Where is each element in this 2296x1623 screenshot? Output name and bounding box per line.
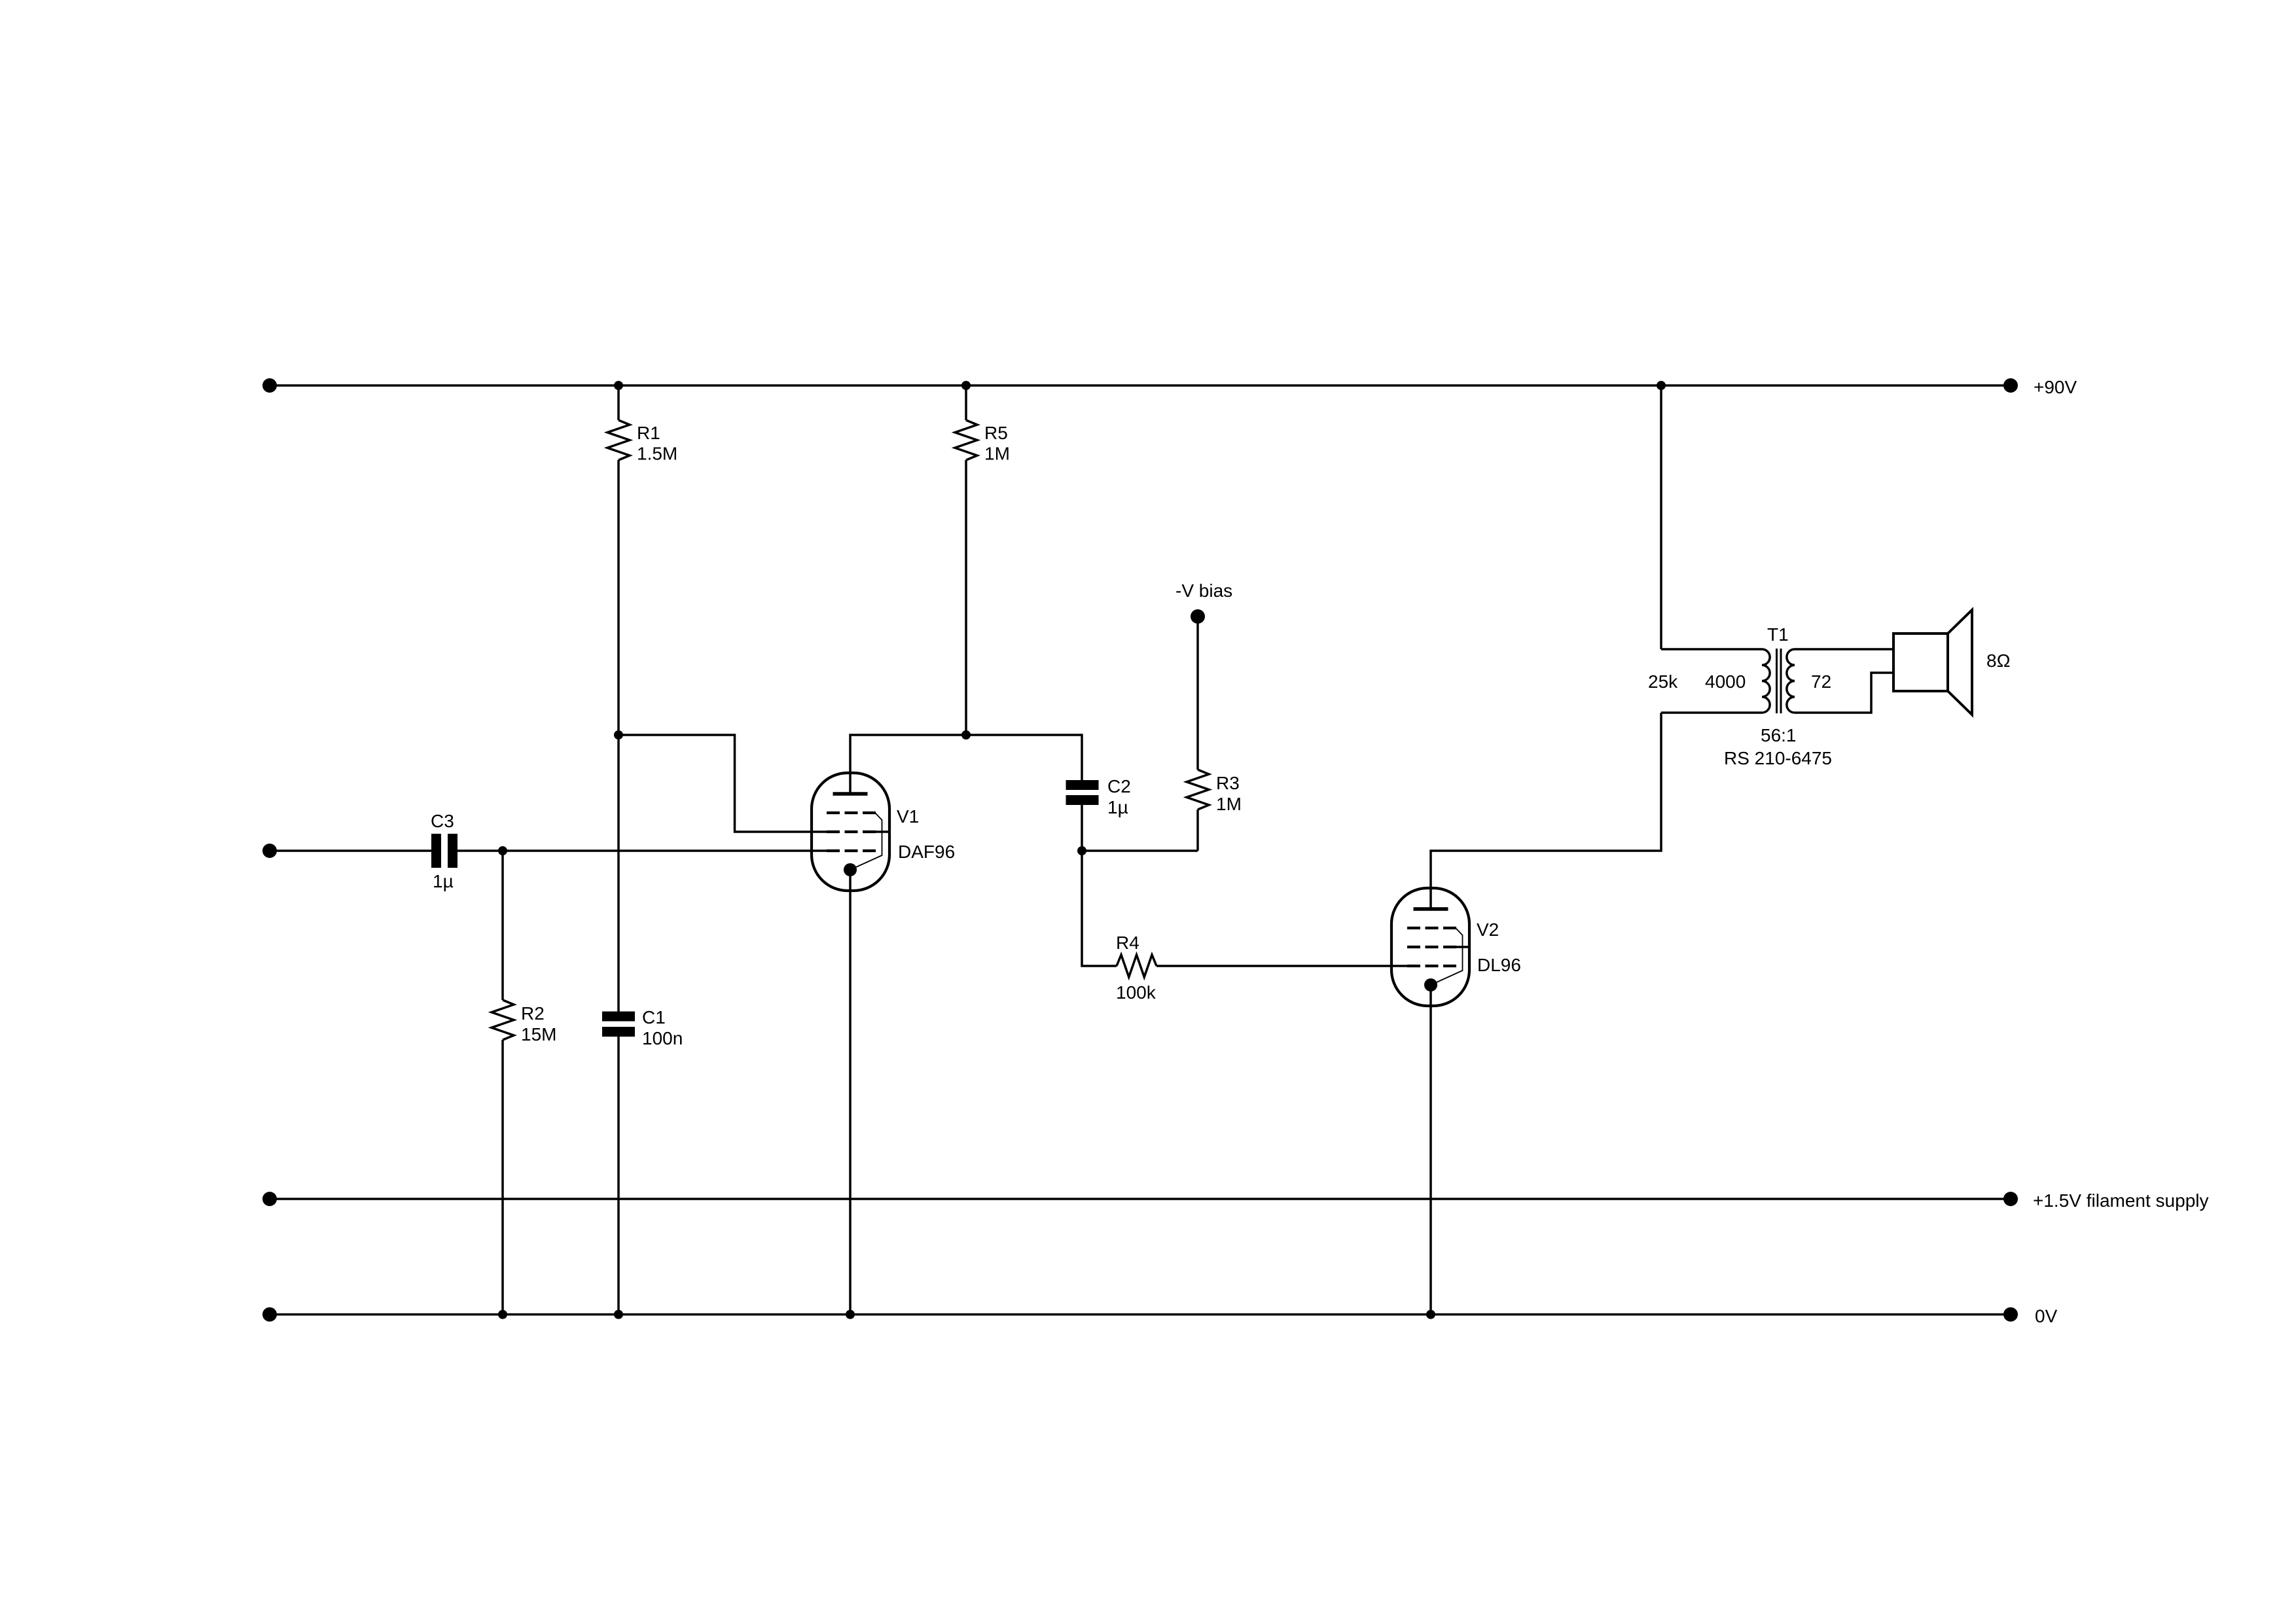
svg-text:R4: R4	[1116, 933, 1139, 953]
wire R1 top lead	[617, 385, 620, 420]
svg-text:100n: 100n	[642, 1028, 683, 1048]
node junction +90V/T1	[1657, 381, 1666, 390]
svg-text:100k: 100k	[1116, 982, 1157, 1003]
node junction R1/grid wire	[614, 730, 623, 740]
wire +90V rail	[270, 384, 2011, 387]
node junction R2/0V	[498, 1310, 507, 1319]
node 0V right terminal	[2003, 1308, 2018, 1322]
svg-text:R5: R5	[984, 423, 1008, 443]
wire V1 anode to C2	[850, 735, 1082, 794]
capacitor C2	[1066, 780, 1099, 790]
wire V2 filament to 0V	[1429, 985, 1432, 1315]
tube V2 grid row g3	[1407, 927, 1456, 929]
svg-text:1M: 1M	[1216, 794, 1242, 814]
tube V2 grid row g2	[1407, 946, 1456, 948]
tube V1 grid row g2	[827, 830, 876, 833]
wire R1 to C1	[617, 460, 620, 1012]
svg-text:+90V: +90V	[2034, 377, 2077, 397]
svg-text:1M: 1M	[984, 444, 1010, 464]
wire R1 junction to V1 grid g2	[619, 735, 827, 832]
resistor R4	[1117, 955, 1157, 977]
svg-text:V2: V2	[1477, 919, 1499, 940]
transformer T1 primary winding	[1661, 649, 1770, 713]
svg-text:0V: 0V	[2035, 1306, 2058, 1327]
svg-text:R1: R1	[637, 423, 660, 443]
node +1.5V left terminal	[262, 1192, 277, 1206]
tube V1 grid row g3	[827, 811, 876, 814]
tube V1 envelope	[812, 773, 889, 891]
svg-text:C3: C3	[431, 811, 454, 831]
svg-text:RS 210-6475: RS 210-6475	[1724, 748, 1832, 768]
wire R5 bottom lead	[965, 460, 967, 735]
svg-text:DAF96: DAF96	[898, 842, 955, 862]
wire junction to R3	[1082, 849, 1198, 852]
svg-text:T1: T1	[1767, 624, 1789, 645]
tube V2 anode	[1414, 907, 1448, 911]
svg-text:72: 72	[1811, 671, 1831, 692]
node junction C3/R2	[498, 846, 507, 855]
wire C1 bottom lead	[617, 1032, 620, 1315]
tube V2 internal lead	[1431, 928, 1463, 985]
node junction +90V/R1	[614, 381, 623, 390]
wire 0V rail	[270, 1313, 2011, 1316]
resistor R2	[492, 1000, 514, 1040]
wire +90V to T1 primary top	[1660, 385, 1662, 649]
node junction C2/R3/R4	[1077, 846, 1086, 855]
wire C2 bottom lead	[1081, 805, 1083, 851]
tube V1 filament	[844, 863, 857, 876]
node input terminal	[262, 844, 277, 858]
tube V2 grid row g1	[1407, 965, 1456, 967]
wire R2 bottom lead	[501, 1040, 504, 1315]
capacitor C1	[602, 1012, 635, 1022]
node junction V1 filament/0V	[846, 1310, 855, 1319]
wire R5 top lead	[965, 385, 967, 420]
wire +1.5V filament rail	[270, 1198, 2011, 1200]
tube V2 envelope	[1391, 888, 1469, 1006]
node junction +90V/R5	[961, 381, 971, 390]
svg-text:-V bias: -V bias	[1175, 580, 1232, 601]
wire V1 filament to 0V	[849, 870, 852, 1315]
node +90V right terminal	[2003, 378, 2018, 393]
node +90V left terminal	[262, 378, 277, 393]
node junction R5/anode wire	[961, 730, 971, 740]
svg-text:R2: R2	[521, 1003, 545, 1024]
wire junction down to R4	[1082, 851, 1117, 966]
node -V bias terminal	[1191, 609, 1205, 624]
svg-text:1µ: 1µ	[1107, 797, 1128, 817]
svg-text:V1: V1	[897, 806, 919, 827]
tube V1 anode	[833, 792, 868, 796]
svg-text:C2: C2	[1107, 776, 1131, 796]
svg-text:56:1: 56:1	[1761, 725, 1797, 745]
svg-text:4000: 4000	[1705, 671, 1746, 692]
node +1.5V right terminal	[2003, 1192, 2018, 1206]
node junction V2 filament/0V	[1426, 1310, 1435, 1319]
wire R2 top lead	[501, 851, 504, 1000]
svg-text:R3: R3	[1216, 773, 1240, 793]
svg-text:1µ: 1µ	[433, 871, 454, 891]
resistor R3	[1187, 770, 1209, 810]
resistor R1	[607, 420, 630, 460]
svg-text:C1: C1	[642, 1007, 666, 1027]
tube V2 filament	[1424, 978, 1437, 991]
wire R4 to V2 grid g1	[1157, 965, 1407, 967]
resistor R5	[955, 420, 977, 460]
svg-text:1.5M: 1.5M	[637, 444, 677, 464]
wire C3 to V1 grid g1	[457, 849, 827, 852]
capacitor C3	[431, 834, 441, 868]
node 0V left terminal	[262, 1308, 277, 1322]
svg-text:8Ω: 8Ω	[1986, 651, 2011, 671]
wire T1 primary bottom to V2 anode	[1431, 713, 1661, 909]
svg-text:15M: 15M	[521, 1024, 556, 1044]
wire input to C3	[270, 849, 431, 852]
tube V1 grid row g1	[827, 849, 876, 852]
speaker LS1 box	[1893, 633, 1948, 691]
tube V1 internal lead	[850, 813, 882, 870]
wire R3 top lead	[1196, 616, 1199, 770]
node junction C1/0V	[614, 1310, 623, 1319]
svg-text:DL96: DL96	[1477, 955, 1521, 975]
transformer T1 core	[1776, 649, 1778, 713]
wire R3 bottom lead	[1196, 810, 1199, 851]
svg-text:25k: 25k	[1648, 671, 1678, 692]
svg-text:+1.5V filament supply: +1.5V filament supply	[2033, 1190, 2209, 1211]
transformer T1 secondary winding	[1787, 649, 1893, 713]
speaker LS1 cone	[1948, 610, 1972, 715]
